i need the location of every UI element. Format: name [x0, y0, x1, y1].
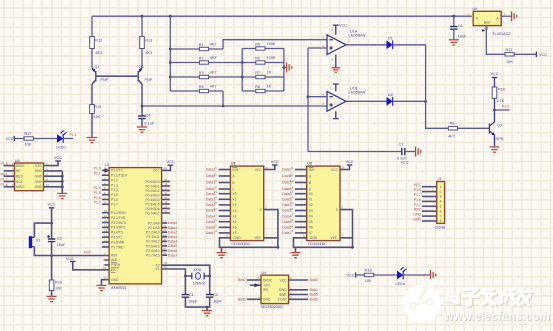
svg-text:100K: 100K [267, 56, 276, 60]
svg-text:Data0: Data0 [168, 221, 177, 225]
diode D2 [387, 97, 393, 106]
svg-text:P1.6: P1.6 [94, 196, 101, 200]
svg-text:12MHZ: 12MHZ [193, 282, 206, 286]
power VCC right [535, 52, 537, 58]
svg-text:P1.7: P1.7 [414, 203, 421, 207]
svg-text:X4: X4 [232, 214, 236, 218]
wire U1B power stubs [333, 84, 339, 119]
ground crystal [206, 307, 208, 311]
svg-text:4K7: 4K7 [210, 85, 217, 89]
resistor R17 [24, 137, 33, 140]
svg-text:4: 4 [292, 229, 294, 233]
svg-text:X1: X1 [309, 198, 313, 202]
svg-text:36: 36 [164, 191, 168, 195]
node Q2 collector [141, 105, 144, 108]
svg-text:R18: R18 [365, 268, 372, 272]
svg-text:P1.0: P1.0 [502, 105, 509, 109]
svg-text:13: 13 [104, 224, 108, 228]
wire U6 ground bus [44, 170, 63, 172]
svg-text:P0.3/AD3: P0.3/AD3 [145, 193, 159, 197]
svg-text:1: 1 [348, 38, 350, 42]
svg-text:X6: X6 [232, 226, 236, 230]
wire Q1 collector to R14 [91, 84, 93, 105]
svg-text:CD4051BC: CD4051BC [231, 242, 250, 246]
multiplexer U2 CD4051 body [230, 166, 263, 241]
svg-text:VTG: VTG [35, 164, 42, 168]
svg-text:PNP: PNP [101, 78, 109, 82]
resistor R10 [49, 280, 54, 291]
svg-text:GND: GND [35, 185, 43, 189]
node reset bottom [50, 254, 53, 257]
svg-text:TL431ACZ: TL431ACZ [492, 32, 511, 36]
svg-text:X0: X0 [232, 192, 236, 196]
svg-text:VEE: VEE [330, 236, 337, 240]
resistor R5 row [242, 48, 284, 50]
svg-text:Data5: Data5 [282, 181, 291, 185]
svg-text:Data7: Data7 [206, 231, 215, 235]
svg-text:Data4: Data4 [282, 174, 291, 178]
wire U1B output [346, 100, 387, 102]
svg-text:DRVC: DRVC [263, 278, 273, 282]
svg-text:4: 4 [332, 57, 334, 61]
svg-text:16: 16 [104, 238, 108, 242]
wire R18 to LED4 [374, 274, 397, 276]
svg-text:R7: R7 [255, 71, 260, 75]
svg-text:X3: X3 [309, 209, 313, 213]
wire collector to P1.0 [495, 109, 510, 111]
svg-text:R8: R8 [255, 85, 260, 89]
svg-text:5: 5 [215, 218, 217, 222]
svg-text:10K: 10K [365, 279, 372, 283]
svg-text:RST: RST [414, 208, 422, 212]
svg-text:VCC: VCC [66, 257, 74, 261]
resistor R1 row [170, 48, 223, 50]
svg-text:38: 38 [164, 182, 168, 186]
svg-text:LM358AN: LM358AN [349, 90, 366, 94]
watermark elecfans logo [403, 278, 441, 322]
svg-text:P0.0/AD0: P0.0/AD0 [145, 180, 159, 184]
svg-text:P3.3/INT1: P3.3/INT1 [111, 226, 126, 230]
resistor R6 [256, 61, 265, 64]
regulator U4 MC34063 body [261, 275, 289, 303]
svg-text:5: 5 [292, 218, 294, 222]
svg-text:GND: GND [413, 218, 421, 222]
resistor R12 [90, 37, 95, 49]
wire R9 to Q3 base [458, 127, 490, 129]
svg-text:P0.2/AD2: P0.2/AD2 [145, 189, 159, 193]
power VCC U3 [347, 164, 353, 166]
svg-text:35: 35 [164, 196, 168, 200]
svg-text:12: 12 [104, 219, 108, 223]
resistor R1 [199, 47, 208, 50]
op-amp U1B [323, 86, 366, 111]
svg-text:4K3: 4K3 [95, 51, 102, 55]
svg-text:C6: C6 [458, 24, 463, 28]
svg-text:X7: X7 [232, 231, 236, 235]
svg-text:P0.5/AD5: P0.5/AD5 [145, 202, 159, 206]
mcu port0 pins [145, 178, 170, 216]
svg-text:IPK: IPK [263, 288, 269, 292]
wire R10 to ground [51, 291, 53, 297]
svg-text:2: 2 [292, 224, 294, 228]
svg-text:X7: X7 [309, 231, 313, 235]
svg-text:Q3: Q3 [497, 123, 502, 127]
transistor Q2 [138, 65, 153, 84]
svg-text:32: 32 [164, 209, 168, 213]
svg-text:NPN: NPN [496, 137, 504, 141]
svg-text:P1.4: P1.4 [111, 188, 118, 192]
svg-text:R6: R6 [255, 57, 260, 61]
diode D1 [387, 40, 393, 49]
svg-text:4: 4 [215, 229, 217, 233]
svg-text:D1: D1 [388, 36, 393, 40]
svg-text:P3.7/RD: P3.7/RD [111, 245, 124, 249]
power VCC U1A [333, 24, 339, 26]
wire cap to RST wire [51, 242, 53, 256]
svg-text:P1.3: P1.3 [111, 183, 118, 187]
svg-text:P3.2/INT0: P3.2/INT0 [111, 221, 126, 225]
svg-text:X6: X6 [309, 226, 313, 230]
svg-text:8: 8 [332, 28, 334, 32]
svg-text:ALE: ALE [111, 258, 118, 262]
svg-text:SWC: SWC [279, 288, 287, 292]
wire U6 VTG to VCC [44, 161, 59, 166]
svg-text:GND: GND [310, 236, 318, 240]
resistor R4 [199, 89, 208, 92]
svg-text:P1.1/T2EX: P1.1/T2EX [111, 174, 128, 178]
wire TL431 anode to ground [501, 15, 511, 17]
wire Q3 emitter to ground [494, 135, 496, 147]
resistor R6 row [242, 62, 284, 64]
svg-text:RES: RES [16, 175, 24, 179]
svg-text:33: 33 [164, 205, 168, 209]
svg-text:27: 27 [163, 247, 167, 251]
U2 control pins [206, 166, 239, 192]
svg-text:C3: C3 [57, 236, 62, 240]
U4 left pins [238, 276, 273, 301]
capacitor C7 [402, 148, 405, 155]
wire comparator cap branch [308, 151, 402, 153]
svg-text:4K7: 4K7 [448, 135, 455, 139]
svg-text:9: 9 [292, 185, 294, 189]
resistor R8 row [242, 90, 284, 92]
wire crystal to C2 [209, 276, 211, 295]
svg-text:R12: R12 [95, 39, 102, 43]
svg-text:P1.5: P1.5 [94, 191, 101, 195]
svg-text:4K7: 4K7 [210, 56, 217, 60]
node top-left junctions [141, 15, 144, 18]
svg-text:VCC: VCC [331, 168, 339, 172]
wire node down to base resistor [426, 102, 449, 129]
svg-text:P1.5: P1.5 [414, 188, 421, 192]
svg-text:8: 8 [303, 233, 305, 237]
svg-text:4K3: 4K3 [145, 51, 152, 55]
svg-text:SWE: SWE [279, 293, 287, 297]
mcu port3 pins [102, 209, 126, 249]
node reset top [50, 222, 53, 225]
ground Q3 [490, 147, 500, 152]
svg-text:P1.6: P1.6 [414, 198, 421, 202]
ground under C4 [137, 127, 147, 132]
wire U2 ground bus [220, 238, 278, 248]
svg-text:1: 1 [215, 212, 217, 216]
svg-text:P3.1/TXD: P3.1/TXD [111, 216, 126, 220]
svg-text:R11: R11 [506, 48, 513, 52]
svg-text:Data6: Data6 [282, 226, 291, 230]
multiplexer U3 CD4051 body [307, 166, 340, 241]
svg-text:P0.1/AD1: P0.1/AD1 [145, 184, 159, 188]
svg-text:R13: R13 [145, 39, 152, 43]
svg-text:Data3: Data3 [206, 209, 215, 213]
svg-text:VCC: VCC [271, 160, 279, 164]
U3 control pins [282, 166, 315, 192]
U3 X0-X7 pins [282, 190, 313, 235]
svg-text:Batt5: Batt5 [310, 293, 318, 297]
svg-text:Data0: Data0 [206, 174, 215, 178]
svg-text:P2.5/A13: P2.5/A13 [146, 244, 160, 248]
svg-text:3: 3 [342, 205, 344, 209]
svg-text:30pF: 30pF [189, 299, 198, 303]
svg-text:11: 11 [104, 214, 107, 218]
svg-text:CD4051BC: CD4051BC [308, 242, 327, 246]
svg-text:25: 25 [163, 238, 167, 242]
svg-text:S1: S1 [36, 239, 41, 243]
svg-text:C1: C1 [189, 293, 194, 297]
svg-text:30: 30 [103, 258, 107, 262]
svg-text:GND: GND [35, 175, 43, 179]
resistor R8 [256, 89, 265, 92]
svg-text:10uF: 10uF [458, 34, 467, 38]
ground C6 [449, 40, 459, 45]
svg-text:C2: C2 [213, 293, 218, 297]
svg-text:Batt3: Batt3 [310, 278, 318, 282]
svg-text:VCC: VCC [414, 183, 422, 187]
svg-text:R10: R10 [55, 280, 62, 284]
svg-text:P2.7/A15: P2.7/A15 [146, 254, 160, 258]
svg-text:GND: GND [35, 180, 43, 184]
resistor R7 [256, 75, 265, 78]
svg-text:Batt4: Batt4 [310, 288, 318, 292]
wire C4 branch [141, 106, 143, 116]
svg-text:2: 2 [323, 35, 325, 39]
svg-text:10: 10 [104, 209, 108, 213]
svg-text:Data5: Data5 [282, 220, 291, 224]
svg-text:4K7: 4K7 [210, 71, 217, 75]
svg-text:Q2: Q2 [139, 65, 144, 69]
svg-text:J1: J1 [438, 177, 442, 181]
resistor R7 row [242, 76, 284, 78]
power VCC ISP [55, 160, 61, 162]
wire U6 left pins [4, 165, 15, 167]
wire U1A feedback vertical [307, 48, 309, 152]
svg-text:10K: 10K [55, 286, 62, 290]
wire Q3 collector [494, 98, 496, 122]
svg-text:X5: X5 [232, 220, 236, 224]
svg-text:U3: U3 [307, 162, 312, 166]
svg-text:NC: NC [16, 169, 21, 173]
net labels mcu port1 [94, 167, 101, 205]
wire to mid ground [284, 67, 287, 69]
svg-text:P2.2/A10: P2.2/A10 [146, 231, 160, 235]
watermark chinese text shadow [448, 290, 533, 307]
J1 pins [413, 183, 441, 223]
svg-text:Data7: Data7 [168, 253, 177, 257]
svg-text:Data7: Data7 [282, 231, 291, 235]
resistor R3 [199, 75, 208, 78]
wire VCC to cap [51, 208, 53, 239]
svg-text:4K7: 4K7 [210, 43, 217, 47]
wire C6 branch [453, 16, 455, 26]
svg-text:2: 2 [440, 190, 442, 194]
svg-text:28: 28 [163, 252, 167, 256]
svg-text:XTAL: XTAL [193, 268, 202, 272]
wire D1 to node [394, 45, 426, 102]
svg-text:6: 6 [440, 209, 442, 213]
svg-text:Data5: Data5 [168, 244, 177, 248]
wire left resistor bus [169, 16, 171, 91]
power VCC mcu [168, 164, 174, 166]
wire top VCC net [92, 15, 472, 17]
svg-text:R2: R2 [199, 57, 204, 61]
svg-text:GND: GND [413, 213, 421, 217]
resistor R18 [364, 273, 373, 276]
svg-text:VCC: VCC [345, 160, 353, 164]
wire button to RST [34, 247, 109, 256]
wire VCC to R17 [14, 138, 24, 140]
svg-text:P1.1: P1.1 [94, 172, 101, 176]
wire R13 branch [141, 16, 143, 68]
svg-text:26: 26 [163, 242, 167, 246]
wire XTAL1 to crystal [162, 269, 186, 276]
svg-text:Data5: Data5 [206, 220, 215, 224]
wire row4 down to signal [222, 91, 224, 106]
capacitor C3 [48, 239, 56, 242]
svg-text:GND: GND [111, 278, 119, 282]
svg-text:P1.4: P1.4 [94, 186, 101, 190]
svg-text:Data4: Data4 [206, 214, 215, 218]
svg-text:4: 4 [440, 200, 442, 204]
svg-text:C4: C4 [146, 114, 151, 118]
svg-text:LED4: LED4 [396, 282, 406, 286]
transistor Q3 [489, 122, 503, 141]
wire C4 to ground [141, 119, 143, 127]
connector U6 ISP [15, 159, 44, 191]
resistor R9 [448, 127, 457, 130]
svg-text:Data1: Data1 [168, 226, 177, 230]
svg-text:1: 1 [292, 212, 294, 216]
mcu port2 pins with Data labels [146, 219, 177, 257]
svg-text:8: 8 [440, 219, 442, 223]
svg-text:CON8: CON8 [435, 225, 446, 229]
watermark chinese text 电子发烧友 [447, 288, 532, 305]
ground mcu [97, 285, 107, 290]
U2 X0-X7 pins [206, 190, 237, 235]
svg-text:Batt6: Batt6 [310, 298, 318, 302]
svg-text:X1: X1 [156, 267, 160, 271]
svg-text:X0: X0 [309, 192, 313, 196]
svg-text:4.7K: 4.7K [497, 99, 505, 103]
svg-text:15: 15 [104, 234, 108, 238]
ground U2 [221, 247, 223, 252]
wire caps to ground bus [185, 297, 209, 307]
power VCC U2 [272, 164, 278, 166]
svg-text:P3.0/RXD: P3.0/RXD [111, 211, 126, 215]
svg-text:VCC: VCC [490, 72, 498, 76]
svg-text:X1: X1 [232, 198, 236, 202]
wire R17 to LED1 [33, 138, 57, 140]
mcu ALE PSEN pins [105, 260, 110, 265]
wire feedback block right vertical [283, 49, 285, 92]
svg-text:39: 39 [164, 178, 168, 182]
node row4 join [222, 105, 225, 108]
power VCC Q3 [492, 77, 498, 79]
svg-text:10: 10 [46, 183, 50, 187]
svg-text:GND: GND [35, 169, 43, 173]
svg-text:30pF: 30pF [213, 299, 222, 303]
svg-text:20: 20 [104, 275, 108, 279]
resistor R16 [492, 87, 497, 98]
svg-text:INH: INH [232, 168, 238, 172]
svg-text:D2: D2 [388, 93, 393, 97]
svg-text:LED0: LED0 [56, 145, 66, 149]
wire R16 to VCC [494, 78, 496, 88]
svg-text:RST: RST [84, 251, 92, 255]
svg-text:Data4: Data4 [168, 240, 177, 244]
svg-text:37: 37 [164, 187, 168, 191]
mcu U1 AT89S52 body [109, 168, 162, 284]
svg-text:10K: 10K [24, 142, 31, 146]
resistor R14 [90, 105, 95, 114]
svg-text:U2: U2 [231, 162, 236, 166]
svg-text:Data7: Data7 [282, 168, 291, 172]
svg-text:P1.2: P1.2 [111, 178, 118, 182]
ground U3 [295, 247, 297, 252]
svg-text:VCC: VCC [6, 137, 14, 141]
svg-text:VCC: VCC [347, 274, 355, 278]
resistor R11 [505, 53, 514, 56]
wire crystal to C1 [184, 276, 186, 295]
svg-text:3: 3 [265, 205, 267, 209]
svg-text:7: 7 [348, 95, 350, 99]
svg-text:5: 5 [440, 205, 442, 209]
svg-text:VEE: VEE [254, 236, 261, 240]
svg-text:7: 7 [342, 233, 344, 237]
ground C7 sideways [416, 147, 421, 157]
ground TL431 sideways [512, 11, 517, 21]
svg-text:P1.6: P1.6 [1, 183, 8, 187]
svg-text:Batt2: Batt2 [238, 298, 246, 302]
svg-text:6: 6 [323, 92, 325, 96]
svg-text:VCC: VCC [539, 53, 547, 57]
svg-text:-VIN: -VIN [263, 284, 270, 288]
svg-text:PSEN: PSEN [111, 263, 121, 267]
svg-text:P0.7/AD7: P0.7/AD7 [145, 211, 159, 215]
wire R12 branch [91, 16, 93, 68]
svg-text:PNP: PNP [145, 78, 153, 82]
wire U1A output [346, 44, 387, 46]
wire C7 to ground [405, 151, 416, 153]
ground under R14 [87, 138, 97, 143]
svg-text:U9: U9 [473, 7, 478, 11]
svg-text:Data2: Data2 [168, 230, 177, 234]
svg-text:AT89S51: AT89S51 [111, 286, 127, 290]
capacitor C2 [206, 295, 214, 298]
wire U1A +input [308, 47, 327, 49]
svg-text:P1.7: P1.7 [414, 193, 421, 197]
resistor R4 row [170, 90, 223, 92]
svg-text:Data4: Data4 [282, 214, 291, 218]
svg-text:U1: U1 [105, 163, 110, 167]
